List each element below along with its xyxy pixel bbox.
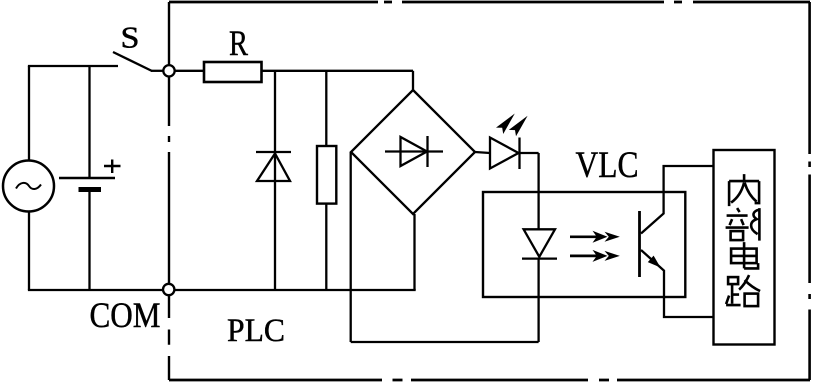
- wire blade to input node: [151, 70, 163, 72]
- wire zener branch vertical: [274, 71, 276, 290]
- bridge inner diode triangle: [401, 137, 428, 166]
- PLC enclosure bottom chain-line border: [169, 379, 810, 382]
- wire LED drop to optocoupler: [537, 153, 539, 229]
- svg-text:R: R: [229, 23, 248, 63]
- label char 部: [726, 208, 760, 241]
- battery B1 negative short plate: [79, 187, 102, 192]
- optocoupler VLC box: [483, 192, 685, 297]
- wire AC top: [28, 66, 30, 161]
- wire bridge left stub down: [350, 152, 352, 342]
- label char 内: [729, 174, 759, 206]
- wire battery bottom: [88, 190, 90, 291]
- wire battery top: [88, 66, 90, 178]
- battery B1 positive long plate: [59, 177, 115, 180]
- LED emission arrow 1: [496, 114, 515, 135]
- coupling arrow 2: [570, 255, 600, 258]
- internal circuit box: [714, 150, 775, 345]
- LED emission arrow 2: [509, 116, 528, 137]
- svg-text:S: S: [121, 20, 140, 55]
- PLC enclosure top chain-line border: [169, 1, 810, 4]
- wire bridge top stub: [412, 71, 414, 90]
- phototransistor collector: [641, 166, 714, 234]
- wire opto LED cathode down: [537, 259, 539, 342]
- label char 路: [726, 275, 760, 306]
- AC source G1 circle: [3, 161, 54, 212]
- resistor R box: [204, 62, 262, 82]
- wire R to bridge top: [262, 70, 414, 72]
- LED VL cathode bar: [518, 138, 520, 170]
- bridge inner diode line: [385, 150, 443, 152]
- battery plus label: [104, 160, 121, 174]
- opto LED triangle: [524, 229, 555, 256]
- COM terminal node: [163, 284, 174, 295]
- resistor R2 vertical box: [317, 146, 336, 204]
- phototransistor emitter arrow: [648, 256, 661, 268]
- AC source sine symbol: [16, 183, 41, 189]
- svg-text:PLC: PLC: [227, 313, 285, 349]
- wire bridge bottom stub: [413, 214, 415, 290]
- bridge inner diode bar: [426, 136, 428, 167]
- diode VD triangle: [257, 154, 290, 182]
- label char 电: [731, 242, 758, 268]
- diode VD cathode bar: [256, 151, 291, 153]
- switch S blade: [113, 52, 152, 71]
- svg-text:VLC: VLC: [576, 145, 639, 186]
- PLC enclosure left chain-line border: [168, 2, 170, 380]
- phototransistor VT base bar: [638, 211, 641, 277]
- PLC enclosure right chain-line border: [808, 2, 811, 380]
- bridge rectifier UR diamond: [351, 90, 475, 214]
- wire AC bottom: [28, 212, 30, 291]
- opto LED anode bar: [522, 257, 557, 259]
- LED VL triangle: [490, 138, 519, 169]
- input terminal node: [163, 65, 174, 76]
- wire resistor branch top: [325, 71, 327, 146]
- wire bottom rail: [28, 289, 416, 291]
- svg-text:COM: COM: [90, 295, 161, 335]
- wire bridge right to LED: [475, 152, 490, 153]
- phototransistor emitter: [641, 250, 714, 317]
- wire bottom loop: [351, 341, 539, 343]
- coupling arrow 1: [570, 235, 600, 238]
- wire top-left horizontal: [28, 65, 118, 67]
- wire resistor branch bottom: [325, 204, 327, 290]
- wire node to resistor R: [175, 70, 204, 72]
- wire LED to drop: [520, 152, 539, 154]
